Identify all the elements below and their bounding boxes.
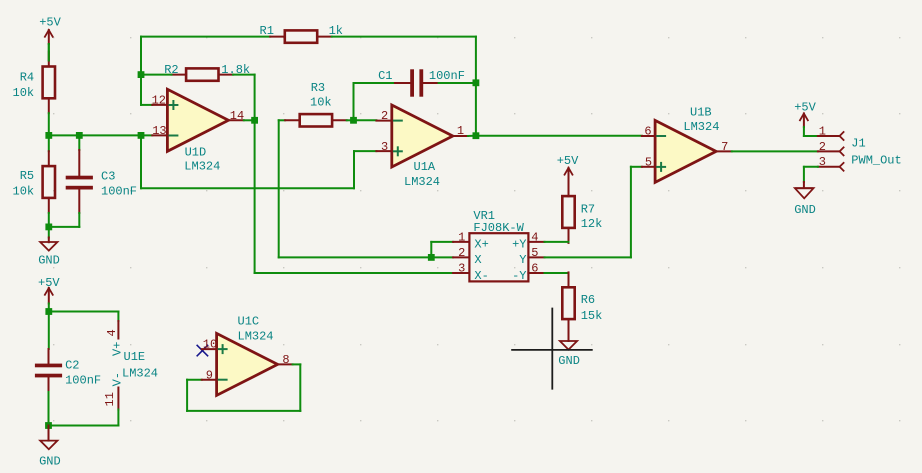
wire U1A out to U1B pin6 <box>476 135 642 137</box>
svg-text:2: 2 <box>381 109 388 123</box>
pin 1 U1A output <box>453 135 468 137</box>
plus mark inside U1A <box>394 147 402 155</box>
wire C2 top <box>48 312 50 350</box>
no-connect X on pin 10 <box>197 345 207 355</box>
connector J1 pin 2 <box>818 147 844 156</box>
junction node A branch <box>138 132 145 139</box>
pin 6 VR1 -Y <box>528 272 544 274</box>
plus mark inside U1B <box>657 163 665 171</box>
pin 2 VR1 X <box>453 256 469 258</box>
wire R1 left <box>141 36 270 38</box>
pin 3 VR1 X- <box>453 272 469 274</box>
svg-text:LM324: LM324 <box>184 160 220 174</box>
connector J1 pin 1 <box>818 131 844 140</box>
svg-text:GND: GND <box>38 254 60 268</box>
pin 14 U1D output <box>228 119 243 121</box>
wire R1 right to C1 column <box>332 36 476 38</box>
minus mark inside U1C <box>219 379 227 381</box>
wire to U1A pin2 <box>354 119 377 121</box>
svg-text:1: 1 <box>457 124 464 138</box>
svg-text:6: 6 <box>644 125 651 139</box>
svg-text:LM324: LM324 <box>122 367 158 381</box>
minus mark inside U1A <box>394 120 402 122</box>
wire node A to R5 <box>48 135 50 151</box>
thermistor VR1 FJ08K-W body <box>469 233 528 281</box>
svg-text:11: 11 <box>103 392 117 406</box>
pin 3 U1A + input <box>376 150 391 152</box>
wire VR1 pin5 out <box>545 256 631 258</box>
svg-text:FJ08K-W: FJ08K-W <box>473 221 524 235</box>
gnd stem <box>48 238 50 243</box>
svg-text:100nF: 100nF <box>65 374 101 388</box>
wire +5V stem <box>48 288 50 304</box>
wire U1A out <box>468 135 476 137</box>
wire C1 left drop <box>353 83 355 120</box>
svg-text:R4: R4 <box>20 71 34 85</box>
pin 5 U1B + input <box>642 166 655 168</box>
svg-text:X: X <box>474 253 481 267</box>
resistor R7 <box>562 181 574 243</box>
svg-text:9: 9 <box>206 368 213 382</box>
wire U1A pin3 return <box>141 187 354 189</box>
svg-text:R3: R3 <box>311 81 325 95</box>
wire U1A pin3 <box>354 150 376 152</box>
op-amp U1D (LM324) <box>167 89 228 151</box>
svg-text:2: 2 <box>819 140 826 154</box>
svg-text:U1B: U1B <box>690 106 712 120</box>
svg-text:U1D: U1D <box>185 145 207 159</box>
wire to VR1 pin2 stub <box>431 256 453 258</box>
wire +5V stem <box>48 30 50 44</box>
wire V+ drop <box>117 312 119 322</box>
svg-text:PWM_Out: PWM_Out <box>851 154 901 168</box>
wire GND drop <box>803 167 805 182</box>
wire C1 column vertical <box>475 37 477 136</box>
wire R4 to node A <box>48 113 50 135</box>
svg-text:R7: R7 <box>581 202 595 216</box>
wire U1B pin5 <box>631 166 642 168</box>
wire +5V to R4 (over stub) <box>48 44 50 61</box>
resistor R6 <box>562 272 574 334</box>
pin 5 VR1 Y <box>528 256 544 258</box>
ground GND3 (J1) <box>795 188 814 198</box>
svg-text:-Y: -Y <box>512 269 526 283</box>
pin 6 U1B - input <box>642 135 655 137</box>
wire C3 bottom stub <box>78 189 80 213</box>
wire R2 to U1D out <box>254 75 256 121</box>
svg-text:GND: GND <box>558 354 580 368</box>
wire +5V to J1 pin1 <box>803 127 805 136</box>
+5V power symbol <box>44 288 53 296</box>
wire R2 left <box>141 74 172 76</box>
resistor R5 <box>43 151 55 213</box>
wire U1A pin3 drop <box>353 151 355 188</box>
+5V power symbol <box>564 168 573 176</box>
wire R6 to GND <box>568 334 570 341</box>
wire node B to C3 <box>49 226 80 228</box>
svg-text:100nF: 100nF <box>429 69 465 83</box>
capacitor C3 <box>66 176 93 190</box>
wire to VR1 pin3 <box>255 272 454 274</box>
svg-text:+5V: +5V <box>794 101 816 115</box>
svg-text:7: 7 <box>721 140 728 154</box>
capacitor C1 <box>395 69 439 96</box>
svg-text:R6: R6 <box>581 293 595 307</box>
pin 1 VR1 X+ <box>453 241 469 243</box>
resistor R2 <box>172 68 234 80</box>
svg-text:100nF: 100nF <box>101 185 137 199</box>
black crosshair vertical <box>551 309 553 389</box>
svg-text:R1: R1 <box>260 24 274 38</box>
wire +5V to R7 <box>568 168 570 196</box>
wire C3 top stub <box>78 150 80 176</box>
wire +5V stem <box>803 114 805 128</box>
wire VR1 pin6 to R6 <box>545 272 569 274</box>
wire C2 bottom <box>48 392 50 426</box>
svg-text:14: 14 <box>230 109 244 123</box>
pin 9 U1C - input <box>202 379 217 381</box>
svg-text:Y: Y <box>519 253 526 267</box>
wire C1 right <box>439 82 476 84</box>
svg-text:3: 3 <box>458 262 465 276</box>
wire U1D out down <box>254 120 256 273</box>
wire +5V to node C <box>48 304 50 312</box>
junction node U1A output <box>473 132 480 139</box>
junction node C (C2 top) <box>45 308 52 315</box>
wire R5 to node B <box>48 213 50 227</box>
op-amp U1A (LM324) <box>392 105 453 167</box>
svg-text:U1C: U1C <box>238 315 260 329</box>
svg-text:1: 1 <box>819 124 826 138</box>
junction node VR1 pins 1-2 <box>428 254 435 261</box>
minus mark inside U1B <box>657 135 665 137</box>
junction node R3/C1 <box>350 117 357 124</box>
svg-text:+5V: +5V <box>557 154 579 168</box>
wire node C to U1E V+ <box>49 311 119 313</box>
svg-text:X-: X- <box>474 269 488 283</box>
svg-text:LM324: LM324 <box>404 175 440 189</box>
wire C1 left <box>354 82 396 84</box>
op-amp U1C (LM324) <box>217 333 278 395</box>
svg-text:1: 1 <box>458 231 465 245</box>
ground GND1 <box>40 242 57 251</box>
wire +5V to R4 <box>48 44 50 61</box>
wire VR1 pin1 branch <box>430 242 432 258</box>
svg-text:U1E: U1E <box>124 350 146 364</box>
plus mark inside U1D <box>169 101 177 109</box>
pin 2 U1A - input <box>376 120 391 122</box>
wire R7 bottom <box>568 241 570 244</box>
svg-text:8: 8 <box>282 353 289 367</box>
svg-text:LM324: LM324 <box>683 120 719 134</box>
+5V power symbol <box>800 114 809 122</box>
svg-text:3: 3 <box>381 140 388 154</box>
wire R2 right <box>233 74 255 76</box>
wire to VR1 pin1 <box>431 241 453 243</box>
wire U1C out down <box>299 364 301 411</box>
wire to pin 12 <box>141 104 152 106</box>
wire up to U1B pin5 <box>630 167 632 258</box>
wire U1C bottom <box>187 410 300 412</box>
svg-text:10: 10 <box>203 338 217 352</box>
junction node R2 tap <box>138 71 145 78</box>
wire node D row <box>49 425 119 427</box>
svg-text:+5V: +5V <box>39 16 61 30</box>
wire C3 top <box>78 135 80 150</box>
resistor R4 <box>43 52 55 114</box>
svg-text:10k: 10k <box>13 86 35 100</box>
black crosshair horizontal <box>512 349 592 351</box>
wire to VR1 pin2 <box>279 256 432 258</box>
svg-text:3: 3 <box>819 155 826 169</box>
wire R3 left <box>279 119 285 121</box>
gnd stem <box>803 182 805 188</box>
svg-text:4: 4 <box>105 329 119 336</box>
wire R3 left down <box>278 120 280 257</box>
wire node A down <box>140 135 142 188</box>
wire C2 top stub <box>48 349 50 364</box>
ground GND2 <box>560 341 577 350</box>
svg-text:13: 13 <box>152 124 166 138</box>
plus mark inside U1C <box>219 345 227 353</box>
ground GND4 <box>40 441 57 450</box>
svg-text:2: 2 <box>458 246 465 260</box>
junction node A (R4/R5) <box>45 132 52 139</box>
svg-text:GND: GND <box>794 203 816 217</box>
capacitor C2 <box>35 364 62 378</box>
svg-text:10k: 10k <box>310 95 332 109</box>
svg-text:U1A: U1A <box>414 160 436 174</box>
pin 8 U1C output <box>278 363 293 365</box>
wire R3 right <box>347 119 354 121</box>
wire U1C left up <box>186 380 188 411</box>
wire node B to GND <box>48 227 50 238</box>
svg-text:GND: GND <box>39 454 61 468</box>
wire J1 pin3 to GND <box>804 166 818 168</box>
wire node A row <box>49 134 153 136</box>
wire feedback column <box>140 37 142 105</box>
wire V- drop <box>117 410 119 426</box>
junction node B (R5/C3 bottom) <box>45 224 52 231</box>
pin 10 U1C + input <box>202 348 217 350</box>
resistor R3 <box>285 114 347 126</box>
svg-text:15k: 15k <box>581 309 603 323</box>
svg-text:4: 4 <box>531 231 538 245</box>
wire U1B out to J1 <box>732 150 818 152</box>
wire U1C out <box>293 363 301 365</box>
wire R7 to VR1 pin4 <box>545 241 569 243</box>
junction node A / C3 top <box>76 132 83 139</box>
wire node D to GND <box>48 426 50 441</box>
junction node D (C2 bottom) <box>45 422 52 429</box>
svg-text:V+: V+ <box>111 342 125 356</box>
junction node C1/R1 <box>473 79 480 86</box>
svg-text:X+: X+ <box>474 238 488 252</box>
pin 7 U1B output <box>716 150 731 152</box>
svg-text:LM324: LM324 <box>238 329 274 343</box>
wire U1D out <box>244 119 255 121</box>
svg-text:C3: C3 <box>101 170 115 184</box>
pin 11 (V-) of U1E <box>117 388 119 410</box>
pin 12 U1D + input <box>152 104 167 106</box>
svg-text:5: 5 <box>531 246 538 260</box>
junction node U1D output <box>251 117 258 124</box>
svg-text:V-: V- <box>111 372 125 386</box>
wire to J1 pin1 <box>804 135 818 137</box>
connector J1 pin 3 <box>818 162 844 171</box>
pin 13 U1D - input <box>152 134 167 136</box>
wire C3 bottom <box>78 213 80 227</box>
svg-text:+Y: +Y <box>512 238 526 252</box>
minus mark inside U1D <box>169 135 177 137</box>
svg-text:5: 5 <box>645 155 652 169</box>
pin 4 VR1 +Y <box>528 241 544 243</box>
resistor R1 <box>270 30 332 42</box>
svg-text:12k: 12k <box>581 217 603 231</box>
svg-text:C2: C2 <box>65 359 79 373</box>
svg-text:12: 12 <box>152 94 166 108</box>
pin 4 (V+) of U1E <box>117 321 119 339</box>
op-amp U1B (LM324) <box>655 120 716 182</box>
svg-text:6: 6 <box>531 262 538 276</box>
wire U1C pin9 <box>187 379 202 381</box>
svg-text:R5: R5 <box>20 169 34 183</box>
svg-text:C1: C1 <box>378 69 392 83</box>
wire C2 bottom stub <box>48 377 50 392</box>
svg-text:J1: J1 <box>851 136 865 150</box>
svg-text:10k: 10k <box>13 185 35 199</box>
+5V power symbol <box>44 30 53 38</box>
